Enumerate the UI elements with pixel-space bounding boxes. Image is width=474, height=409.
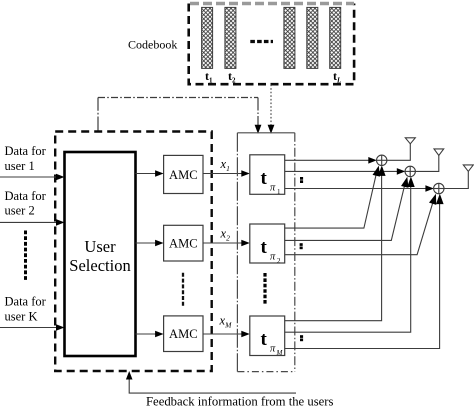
svg-text:x2: x2 bbox=[220, 227, 231, 243]
svg-text:t2: t2 bbox=[228, 69, 236, 85]
svg-text:t: t bbox=[261, 237, 268, 258]
svg-text:2: 2 bbox=[277, 257, 281, 265]
svg-text:xM: xM bbox=[219, 314, 233, 330]
svg-text:AMC: AMC bbox=[169, 327, 197, 341]
svg-text:π: π bbox=[270, 252, 276, 263]
svg-text:Selection: Selection bbox=[69, 256, 130, 275]
svg-text:tL: tL bbox=[333, 69, 341, 85]
svg-text:t: t bbox=[261, 168, 268, 189]
svg-text:Data for: Data for bbox=[5, 144, 47, 158]
svg-text:user K: user K bbox=[5, 309, 38, 323]
svg-text:Data for: Data for bbox=[5, 189, 47, 203]
svg-text:User: User bbox=[84, 237, 116, 256]
svg-text:user 2: user 2 bbox=[5, 203, 35, 217]
svg-text:t1: t1 bbox=[205, 69, 213, 85]
svg-text:t: t bbox=[261, 329, 268, 350]
svg-text:Data for: Data for bbox=[5, 294, 47, 308]
svg-text:1: 1 bbox=[277, 188, 281, 196]
svg-text:AMC: AMC bbox=[169, 237, 197, 251]
svg-text:Codebook: Codebook bbox=[128, 38, 177, 52]
svg-text:M: M bbox=[276, 349, 284, 357]
svg-text:AMC: AMC bbox=[169, 168, 197, 182]
svg-text:Feedback information from the: Feedback information from the users bbox=[146, 394, 334, 408]
svg-text:user 1: user 1 bbox=[5, 159, 35, 173]
svg-text:x1: x1 bbox=[220, 157, 230, 173]
svg-text:π: π bbox=[270, 183, 276, 194]
svg-text:π: π bbox=[270, 344, 276, 355]
